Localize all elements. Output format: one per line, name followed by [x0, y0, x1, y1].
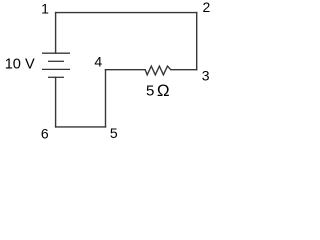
svg-text:6: 6: [41, 125, 49, 141]
battery B1 plate: top long (+): [42, 52, 70, 54]
battery B1 plate: lower long (+): [42, 68, 70, 70]
svg-text:1: 1: [41, 0, 49, 16]
wire: resistor left lead to node 4: [106, 69, 146, 71]
battery B1 plate: bottom short (-): [48, 76, 64, 78]
wire: node 1 to node 2 (top): [56, 12, 197, 14]
wire: node 2 to node 3 (right): [196, 13, 198, 70]
wire: node 3 to resistor right lead: [171, 69, 197, 71]
wire: battery + terminal up to node 1: [55, 13, 57, 54]
svg-text:Ω: Ω: [157, 81, 170, 100]
resistor R1: [145, 66, 171, 75]
svg-text:5: 5: [146, 83, 154, 100]
wire: node 6 up to battery - terminal: [55, 77, 57, 127]
svg-text:2: 2: [203, 0, 211, 15]
svg-text:5: 5: [110, 125, 118, 141]
svg-text:3: 3: [202, 68, 210, 84]
wire: node 4 to node 5 (middle vertical): [105, 70, 107, 127]
svg-text:4: 4: [94, 54, 102, 70]
wire: node 5 to node 6 (bottom): [56, 126, 106, 128]
svg-text:10 V: 10 V: [5, 56, 35, 72]
battery B1 plate: upper short (-): [48, 60, 64, 62]
